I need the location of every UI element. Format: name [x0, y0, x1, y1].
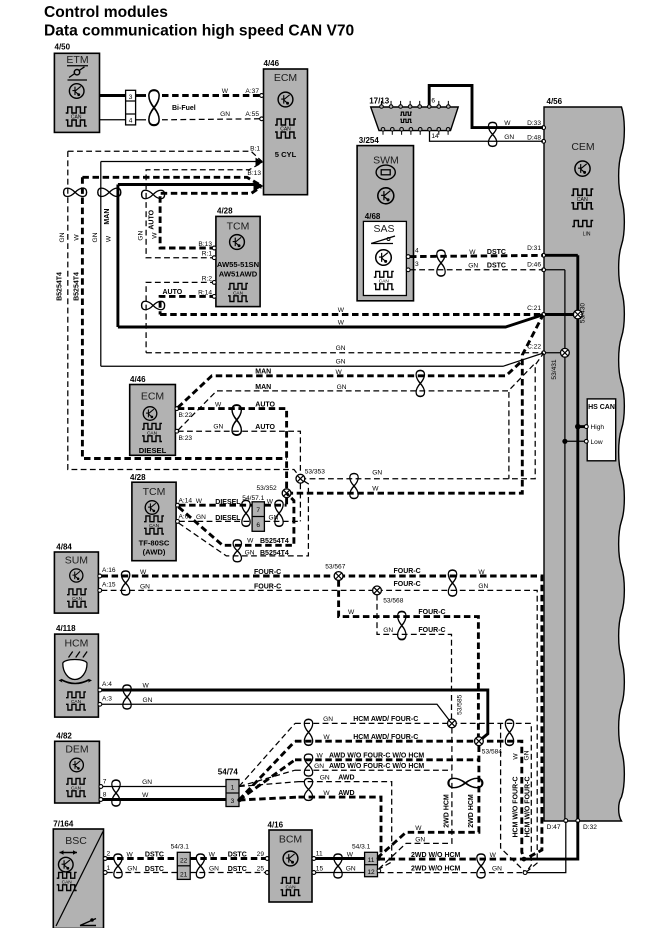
svg-text:54/57.1: 54/57.1	[242, 495, 264, 502]
svg-text:B:23: B:23	[179, 435, 193, 442]
svg-text:FOUR-C: FOUR-C	[254, 569, 281, 576]
svg-text:W: W	[415, 825, 422, 832]
svg-text:HCM: HCM	[64, 638, 88, 650]
svg-text:B:1: B:1	[250, 145, 260, 152]
svg-text:3: 3	[415, 261, 419, 268]
svg-text:Low: Low	[591, 439, 603, 446]
svg-text:DEM: DEM	[65, 744, 88, 756]
svg-text:DSTC: DSTC	[145, 852, 164, 859]
svg-text:1: 1	[231, 785, 235, 792]
svg-text:A:16: A:16	[102, 567, 116, 574]
svg-text:1: 1	[107, 865, 111, 872]
svg-text:4/50: 4/50	[55, 43, 71, 52]
svg-text:GN: GN	[383, 627, 393, 634]
svg-text:4/56: 4/56	[547, 97, 563, 106]
svg-text:MAN: MAN	[104, 209, 111, 225]
svg-text:7: 7	[103, 779, 107, 786]
svg-text:TCM: TCM	[227, 221, 250, 233]
svg-text:DSTC: DSTC	[487, 249, 506, 256]
svg-text:GN: GN	[478, 583, 488, 590]
svg-text:A:14: A:14	[179, 497, 193, 504]
svg-text:25: 25	[257, 866, 265, 873]
svg-text:GN: GN	[213, 424, 223, 431]
svg-text:GN: GN	[336, 359, 346, 366]
svg-text:54/74: 54/74	[218, 767, 239, 776]
svg-text:TF-80SC: TF-80SC	[139, 539, 170, 548]
svg-text:W: W	[222, 88, 229, 95]
svg-text:GN: GN	[196, 514, 206, 521]
svg-text:4/84: 4/84	[56, 542, 72, 551]
svg-text:GN: GN	[524, 750, 531, 760]
svg-text:GN: GN	[209, 866, 219, 873]
svg-text:R:2: R:2	[202, 275, 213, 282]
svg-text:W: W	[338, 319, 345, 326]
svg-text:17/13: 17/13	[369, 97, 390, 106]
svg-text:ECM: ECM	[274, 72, 297, 84]
svg-text:53/585: 53/585	[456, 694, 463, 715]
svg-text:4/28: 4/28	[130, 473, 146, 482]
svg-text:FOUR-C: FOUR-C	[394, 581, 421, 588]
svg-text:6: 6	[431, 98, 435, 105]
svg-text:BCM: BCM	[279, 834, 302, 846]
svg-text:W: W	[215, 402, 222, 409]
svg-text:53/431: 53/431	[551, 359, 558, 380]
svg-text:MAN: MAN	[255, 384, 271, 391]
svg-text:D:48: D:48	[527, 134, 541, 141]
svg-text:GN: GN	[140, 583, 150, 590]
svg-text:GN: GN	[127, 866, 137, 873]
svg-text:Bi-Fuel: Bi-Fuel	[172, 105, 196, 112]
svg-text:GN: GN	[415, 837, 425, 844]
svg-text:D:33: D:33	[527, 120, 541, 127]
svg-text:DSTC: DSTC	[228, 866, 247, 873]
svg-text:W: W	[469, 249, 476, 256]
svg-text:B5254T4: B5254T4	[57, 272, 64, 301]
svg-text:HCM AWD/ FOUR-C: HCM AWD/ FOUR-C	[353, 716, 418, 723]
svg-text:ETM: ETM	[66, 54, 88, 66]
svg-text:HCM W/O FOUR-C: HCM W/O FOUR-C	[525, 776, 532, 837]
svg-text:DIESEL: DIESEL	[215, 499, 241, 506]
svg-text:(AWD): (AWD)	[143, 548, 166, 557]
svg-text:B5254T4: B5254T4	[260, 550, 289, 557]
svg-text:W: W	[372, 486, 379, 493]
svg-text:R:14: R:14	[198, 289, 212, 296]
svg-text:TCM: TCM	[143, 486, 166, 498]
svg-text:54/3.1: 54/3.1	[171, 843, 190, 850]
svg-text:4/46: 4/46	[264, 59, 280, 68]
svg-text:22: 22	[180, 857, 188, 864]
svg-text:4/68: 4/68	[365, 212, 381, 221]
svg-text:A:3: A:3	[102, 696, 112, 703]
svg-text:DSTC: DSTC	[487, 263, 506, 270]
svg-text:B5254T4: B5254T4	[260, 538, 289, 545]
svg-text:DSTC: DSTC	[228, 852, 247, 859]
svg-text:AW55-51SN: AW55-51SN	[217, 260, 259, 269]
svg-text:7: 7	[256, 507, 260, 514]
svg-text:FOUR-C: FOUR-C	[418, 609, 445, 616]
svg-text:W: W	[347, 851, 354, 858]
svg-text:3/254: 3/254	[359, 136, 380, 145]
svg-text:53/568: 53/568	[383, 598, 404, 605]
svg-text:W: W	[247, 538, 254, 545]
svg-text:4: 4	[129, 118, 133, 125]
svg-text:FOUR-C: FOUR-C	[418, 627, 445, 634]
svg-text:29: 29	[257, 851, 265, 858]
svg-text:D:46: D:46	[527, 261, 541, 268]
svg-text:GN: GN	[346, 866, 356, 873]
svg-text:53/352: 53/352	[257, 485, 278, 492]
svg-text:W: W	[152, 232, 159, 239]
svg-text:GN: GN	[336, 345, 346, 352]
svg-text:53/353: 53/353	[305, 468, 326, 475]
svg-text:BSC: BSC	[65, 835, 87, 847]
svg-text:GN: GN	[468, 263, 478, 270]
svg-text:AWD W/O FOUR-C W/O HCM: AWD W/O FOUR-C W/O HCM	[329, 763, 424, 770]
svg-text:W: W	[74, 234, 81, 241]
svg-text:AUTO: AUTO	[149, 209, 156, 229]
svg-text:W: W	[348, 609, 355, 616]
svg-text:14: 14	[431, 133, 439, 140]
svg-text:5 CYL: 5 CYL	[275, 150, 297, 159]
svg-text:C:21: C:21	[527, 305, 541, 312]
svg-text:Control modules: Control modules	[44, 4, 168, 21]
svg-text:A:55: A:55	[245, 111, 259, 118]
svg-text:AUTO: AUTO	[255, 401, 275, 408]
svg-text:DSTC: DSTC	[145, 866, 164, 873]
svg-text:54/3.1: 54/3.1	[352, 844, 371, 851]
svg-text:21: 21	[180, 871, 188, 878]
svg-text:W: W	[127, 851, 134, 858]
svg-text:B5254T4: B5254T4	[73, 272, 80, 301]
svg-text:2: 2	[107, 851, 111, 858]
svg-text:A:15: A:15	[102, 582, 116, 589]
svg-text:W: W	[323, 734, 330, 741]
svg-text:GN: GN	[137, 231, 144, 241]
svg-text:2WD W/O HCM: 2WD W/O HCM	[411, 865, 461, 872]
svg-text:GN: GN	[314, 763, 324, 770]
svg-text:4/82: 4/82	[56, 732, 72, 741]
svg-text:3: 3	[129, 94, 133, 101]
svg-text:GN: GN	[323, 716, 333, 723]
svg-text:High: High	[591, 424, 605, 431]
svg-text:D:31: D:31	[527, 245, 541, 252]
svg-text:4/46: 4/46	[130, 375, 146, 384]
svg-text:8: 8	[103, 792, 107, 799]
svg-text:AUTO: AUTO	[163, 289, 183, 296]
svg-text:GN: GN	[220, 111, 230, 118]
svg-text:W: W	[512, 753, 519, 760]
svg-text:GN: GN	[142, 779, 152, 786]
svg-text:GN: GN	[92, 232, 99, 242]
svg-text:W: W	[143, 683, 150, 690]
svg-text:4/118: 4/118	[56, 624, 76, 633]
svg-text:Data communication high speed: Data communication high speed CAN V70	[44, 23, 355, 40]
svg-text:GN: GN	[492, 866, 502, 873]
svg-text:11: 11	[316, 850, 323, 857]
svg-text:53/567: 53/567	[325, 564, 346, 571]
svg-text:W: W	[209, 851, 216, 858]
svg-text:FOUR-C: FOUR-C	[254, 583, 281, 590]
svg-text:HCM W/O FOUR-C: HCM W/O FOUR-C	[513, 776, 520, 837]
svg-text:12: 12	[367, 869, 375, 876]
svg-text:GN: GN	[320, 775, 330, 782]
svg-text:2WD HCM: 2WD HCM	[443, 794, 450, 828]
svg-text:53/584: 53/584	[482, 749, 503, 756]
svg-text:FOUR-C: FOUR-C	[394, 568, 421, 575]
svg-text:AUTO: AUTO	[255, 424, 275, 431]
svg-text:W: W	[338, 307, 345, 314]
svg-text:GN: GN	[245, 549, 255, 556]
svg-text:15: 15	[316, 865, 324, 872]
svg-text:GN: GN	[59, 232, 66, 242]
svg-text:B:13: B:13	[247, 170, 261, 177]
svg-text:A:37: A:37	[245, 88, 259, 95]
svg-text:SAS: SAS	[373, 223, 394, 235]
svg-text:CEM: CEM	[571, 141, 594, 153]
svg-text:AWD W/O FOUR-C W/O HCM: AWD W/O FOUR-C W/O HCM	[329, 753, 424, 760]
svg-text:2WD W/O HCM: 2WD W/O HCM	[411, 852, 461, 859]
svg-text:D:47: D:47	[547, 824, 561, 831]
svg-text:2WD HCM: 2WD HCM	[468, 794, 475, 828]
svg-text:W: W	[142, 792, 149, 799]
svg-text:GN: GN	[269, 514, 279, 521]
svg-text:W: W	[267, 499, 274, 506]
svg-text:4/28: 4/28	[217, 207, 233, 216]
svg-text:DIESEL: DIESEL	[139, 446, 167, 455]
svg-text:GN: GN	[504, 134, 514, 141]
svg-text:6: 6	[256, 522, 260, 529]
svg-text:W: W	[323, 790, 330, 797]
svg-text:4/16: 4/16	[268, 821, 284, 830]
svg-text:W: W	[504, 120, 511, 127]
svg-text:W: W	[196, 498, 203, 505]
svg-text:SUM: SUM	[65, 555, 88, 567]
svg-text:D:32: D:32	[583, 824, 597, 831]
svg-text:B:22: B:22	[179, 412, 193, 419]
svg-text:AW51AWD: AW51AWD	[219, 270, 258, 279]
svg-text:HCM AWD/ FOUR-C: HCM AWD/ FOUR-C	[353, 734, 418, 741]
svg-text:R:1: R:1	[202, 251, 213, 258]
svg-text:AWD: AWD	[338, 775, 354, 782]
svg-text:DIESEL: DIESEL	[215, 515, 241, 522]
svg-text:W: W	[140, 569, 147, 576]
svg-text:GN: GN	[143, 697, 153, 704]
svg-text:GN: GN	[372, 470, 382, 477]
svg-text:MAN: MAN	[255, 368, 271, 375]
svg-text:ECM: ECM	[141, 391, 164, 403]
svg-text:4: 4	[415, 247, 419, 254]
svg-text:GN: GN	[337, 384, 347, 391]
svg-text:53/430: 53/430	[580, 303, 587, 324]
svg-text:W: W	[478, 569, 485, 576]
svg-text:7/164: 7/164	[53, 820, 74, 829]
svg-text:3: 3	[231, 798, 235, 805]
svg-text:AWD: AWD	[338, 790, 354, 797]
svg-text:W: W	[490, 852, 497, 859]
svg-text:A:4: A:4	[102, 681, 112, 688]
svg-text:11: 11	[368, 857, 375, 864]
svg-text:W: W	[316, 753, 323, 760]
svg-text:W: W	[105, 235, 112, 242]
svg-text:HS CAN: HS CAN	[588, 404, 615, 411]
svg-text:B:13: B:13	[198, 241, 212, 248]
